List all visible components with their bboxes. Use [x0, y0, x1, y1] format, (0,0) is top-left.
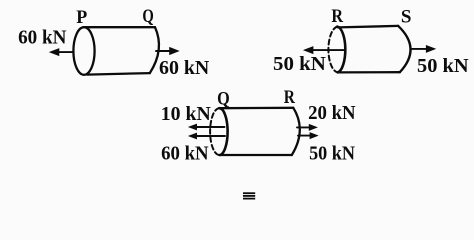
- svg-text:60 kN: 60 kN: [161, 143, 209, 165]
- equivalence symbol: [243, 193, 255, 198]
- cylinder RS bottom line: [339, 71, 400, 74]
- force label 50 kN left of cylinder RS: [273, 53, 326, 75]
- force label 20 kN upper-right of cylinder QR: [308, 102, 356, 124]
- svg-text:Q: Q: [142, 6, 153, 27]
- cylinder RS left end dashed half-ellipse: [328, 27, 337, 73]
- cylinder RS right end arc: [398, 26, 410, 72]
- svg-text:60 kN: 60 kN: [18, 27, 67, 49]
- arrow 50 kN right lower (cylinder QR): [298, 133, 317, 139]
- arrow 60 kN left lower (cylinder QR): [189, 133, 225, 138]
- svg-text:50 kN: 50 kN: [309, 143, 355, 165]
- cylinder QR left end dashed half-ellipse: [210, 108, 219, 155]
- label P: [76, 7, 87, 28]
- cylinder QR bottom line: [220, 154, 292, 156]
- arrow 60 kN right (cylinder PQ): [156, 48, 178, 55]
- label S: [401, 7, 412, 28]
- arrow 50 kN left (cylinder RS): [304, 47, 344, 54]
- arrow 10 kN left upper (cylinder QR): [189, 124, 224, 129]
- svg-text:60 kN: 60 kN: [159, 57, 210, 79]
- cylinder PQ left end ellipse: [73, 27, 94, 75]
- force label 10 kN upper-left of cylinder QR: [161, 103, 212, 125]
- cylinder PQ right end arc: [150, 27, 159, 73]
- force label 50 kN lower-right of cylinder QR: [309, 143, 355, 165]
- svg-text:20 kN: 20 kN: [308, 102, 356, 124]
- arrow 60 kN left (cylinder PQ): [50, 49, 73, 56]
- cylinder PQ top line: [85, 26, 156, 28]
- label R (cylinder QR): [284, 87, 295, 108]
- force label 60 kN right of cylinder PQ: [159, 57, 210, 79]
- force label 50 kN right of cylinder RS: [417, 55, 469, 77]
- svg-text:R: R: [331, 6, 343, 27]
- cylinder QR right end arc: [292, 108, 300, 155]
- svg-text:50 kN: 50 kN: [417, 55, 469, 77]
- cylinder RS top line: [338, 26, 398, 28]
- arrow 20 kN right upper (cylinder QR): [297, 125, 317, 131]
- label R (cylinder RS): [331, 6, 343, 27]
- label Q (cylinder QR): [217, 89, 230, 110]
- force label 60 kN left of cylinder PQ: [18, 27, 67, 49]
- svg-text:S: S: [401, 7, 412, 28]
- cylinder RS left end solid half-arc: [337, 27, 345, 73]
- arrow 50 kN right (cylinder RS): [411, 46, 435, 52]
- label Q (cylinder PQ): [142, 6, 153, 27]
- svg-text:Q: Q: [217, 89, 230, 110]
- cylinder QR left end solid half-arc: [219, 108, 227, 155]
- svg-text:10 kN: 10 kN: [161, 103, 212, 125]
- svg-text:R: R: [284, 87, 295, 108]
- force label 60 kN lower-left of cylinder QR: [161, 143, 209, 165]
- cylinder QR top line: [220, 107, 294, 110]
- svg-text:50 kN: 50 kN: [273, 53, 326, 75]
- cylinder PQ bottom line: [87, 73, 150, 75]
- svg-text:P: P: [76, 7, 87, 28]
